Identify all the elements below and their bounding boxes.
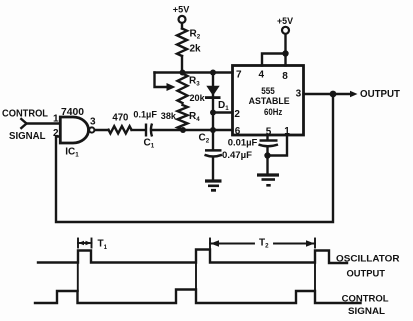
- node R4 bottom: [180, 127, 186, 133]
- svg-text:38k: 38k: [161, 111, 177, 121]
- svg-text:OUTPUT: OUTPUT: [360, 89, 400, 100]
- resistor R4: [178, 105, 188, 130]
- svg-text:CONTROL: CONTROL: [2, 108, 48, 119]
- wire D1 branch vertical: [212, 73, 214, 131]
- capacitor 0.01uF: [260, 139, 278, 142]
- wire gate output to resistor: [95, 129, 109, 131]
- svg-text:3: 3: [90, 117, 96, 128]
- wire +5V to R2: [181, 24, 183, 29]
- T1 dimension ticks: [77, 239, 79, 248]
- wire feedback loop: [56, 94, 333, 222]
- wire C1 to node: [153, 129, 184, 131]
- svg-text:2k: 2k: [190, 44, 202, 55]
- resistor 470: [109, 126, 132, 133]
- capacitor C1: [145, 124, 147, 137]
- control waveform: [35, 290, 361, 304]
- wire R2 to node: [181, 56, 183, 73]
- wire pin 1 down-left: [268, 135, 288, 156]
- align line 2: [195, 263, 197, 290]
- svg-text:8: 8: [282, 71, 288, 82]
- svg-text:0.01µF: 0.01µF: [228, 138, 258, 148]
- svg-text:470: 470: [112, 112, 128, 123]
- svg-text:ASTABLE: ASTABLE: [249, 96, 290, 107]
- svg-text:4: 4: [259, 70, 265, 81]
- node C2 top: [210, 127, 216, 133]
- wire pin 8 to +5V: [284, 35, 286, 66]
- align line 3: [314, 263, 316, 292]
- node pin1/cap: [264, 152, 270, 158]
- wiper loop wire: [155, 73, 169, 88]
- wire pin 4 up: [262, 54, 286, 66]
- resistor R3: [178, 74, 188, 104]
- svg-text:+5V: +5V: [173, 4, 190, 14]
- svg-text:CONTROL: CONTROL: [342, 293, 389, 304]
- ground below C2: [205, 179, 222, 182]
- oscillator waveform: [38, 250, 347, 264]
- wiper arrowhead: [167, 83, 176, 91]
- svg-text:OSCILLATOR: OSCILLATOR: [336, 253, 400, 264]
- svg-text:OUTPUT: OUTPUT: [347, 269, 386, 280]
- T2 dimension ticks: [209, 239, 211, 248]
- node pin8/pin4: [282, 50, 288, 56]
- svg-text:SIGNAL: SIGNAL: [9, 131, 46, 142]
- terminal +5V right: [282, 27, 289, 34]
- wire node to C2: [212, 130, 214, 149]
- gate output bubble: [89, 127, 94, 132]
- svg-text:60Hz: 60Hz: [264, 107, 282, 118]
- svg-text:1: 1: [53, 114, 59, 125]
- diode D1: [206, 86, 219, 96]
- IC 555 astable box: [233, 66, 304, 136]
- resistor R2: [177, 29, 187, 57]
- svg-text:2: 2: [234, 109, 240, 120]
- node D1 to pin2: [210, 110, 216, 116]
- terminal +5V: [179, 16, 186, 23]
- wire input to gate pin 1: [27, 122, 61, 124]
- gate IC1 7400 NAND: [60, 117, 88, 143]
- svg-text:+5V: +5V: [277, 16, 293, 26]
- wire pin 3 to output: [304, 93, 352, 95]
- svg-text:0.47µF: 0.47µF: [222, 150, 253, 160]
- wire C2 to ground: [212, 158, 214, 181]
- wire resistor to C1: [132, 129, 145, 131]
- svg-text:20k: 20k: [190, 93, 206, 103]
- node D1 top: [210, 70, 216, 76]
- svg-text:0.1µF: 0.1µF: [133, 109, 157, 119]
- wire top bus to pin 7: [155, 71, 233, 73]
- align line 1: [77, 263, 79, 292]
- output arrowhead: [350, 91, 358, 97]
- svg-text:3: 3: [296, 88, 302, 99]
- ground below 555: [257, 173, 279, 176]
- node output: [330, 91, 337, 98]
- wire pin 5 down: [266, 135, 268, 139]
- svg-text:7: 7: [236, 70, 242, 81]
- input connector chevron: [21, 119, 26, 128]
- wire to pin 2: [213, 111, 233, 113]
- capacitor C2: [205, 149, 222, 152]
- wire cap to ground: [266, 147, 268, 174]
- svg-text:6: 6: [235, 126, 241, 137]
- wire node to pin 6: [183, 129, 233, 131]
- node R2/R3: [180, 70, 186, 76]
- svg-text:SIGNAL: SIGNAL: [348, 306, 385, 317]
